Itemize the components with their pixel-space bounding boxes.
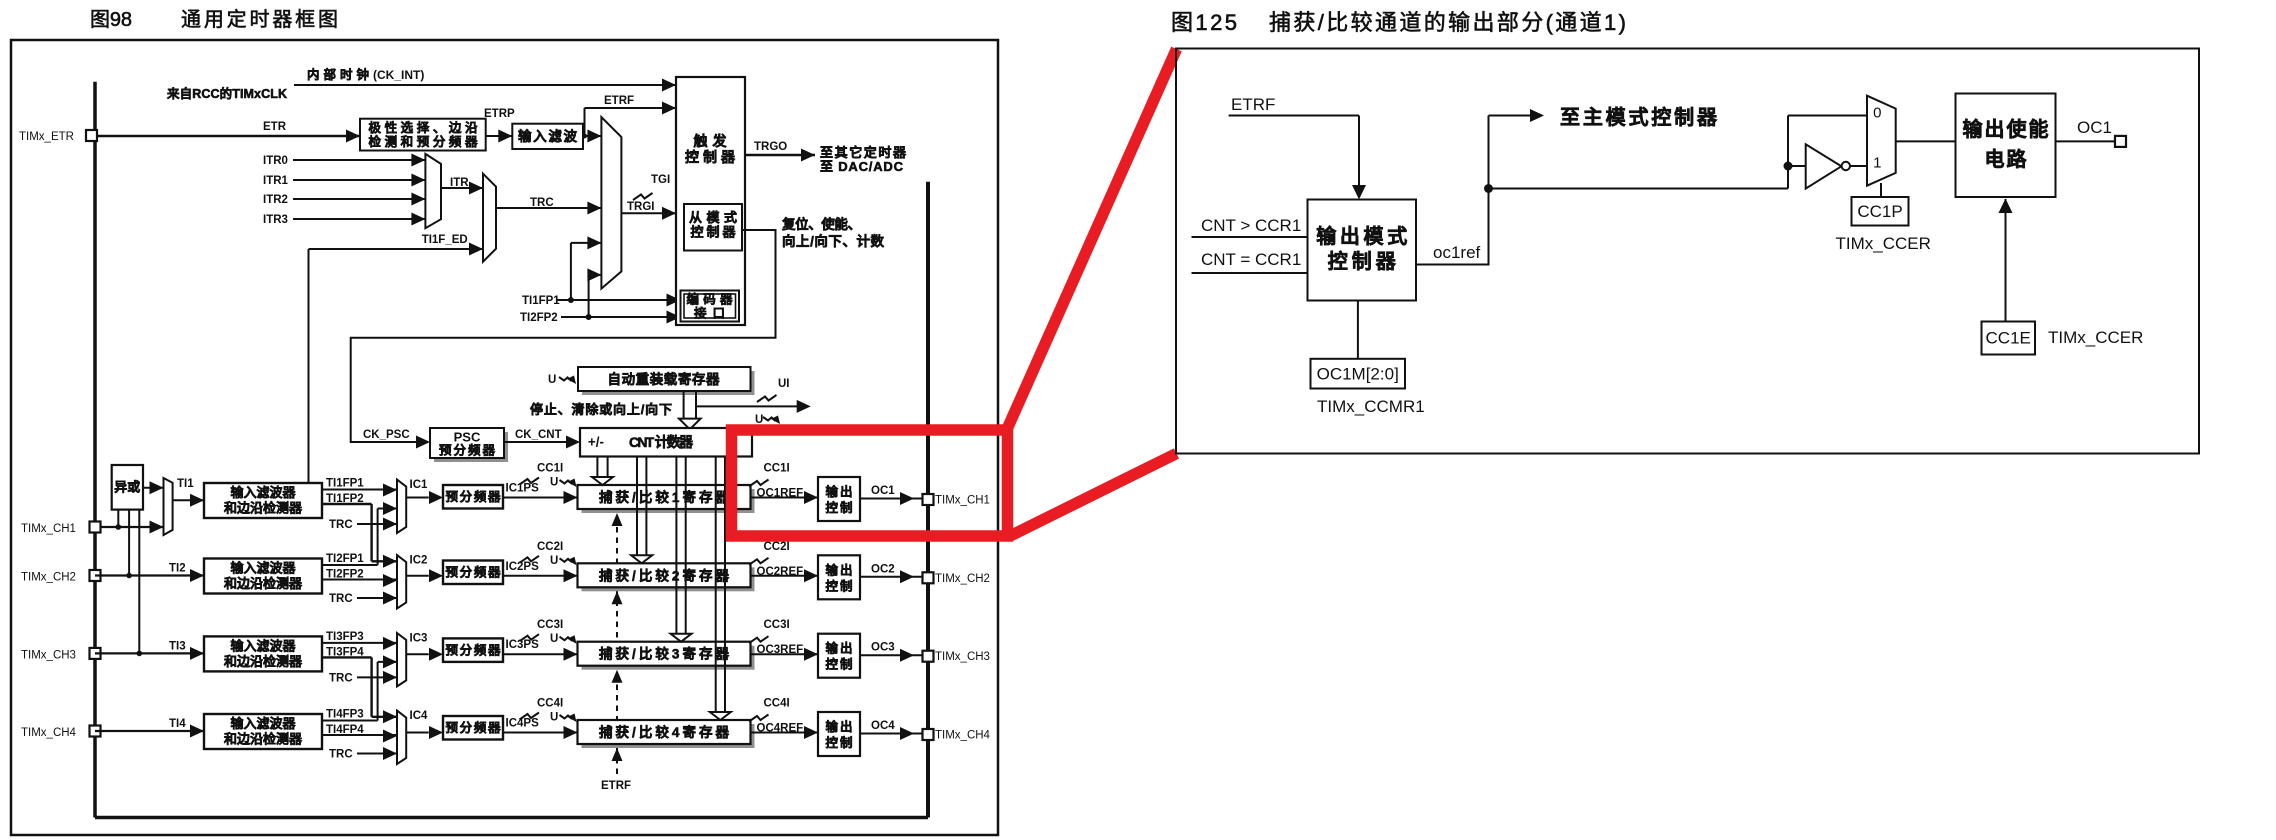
mux ITR select: [425, 154, 441, 228]
channel 2 input stage: [90, 570, 101, 581]
junction ETRF: [582, 134, 587, 139]
svg-text:捕获/比较通道的输出部分(通道1): 捕获/比较通道的输出部分(通道1): [1269, 10, 1626, 35]
box output enable circuit: [1956, 94, 2056, 198]
pad TIMx_CH1 right: [923, 494, 934, 505]
arrow ETRF into register 2: [612, 591, 623, 604]
svg-text:TIMx_CCER: TIMx_CCER: [2048, 328, 2143, 347]
svg-text:自动重装载寄存器: 自动重装载寄存器: [608, 371, 721, 387]
svg-text:和边沿检测器: 和边沿检测器: [224, 501, 303, 516]
inverter (NOT gate): [1806, 144, 1842, 188]
svg-text:TIMx_CH3: TIMx_CH3: [21, 649, 76, 661]
wire ETR: [96, 135, 360, 138]
svg-text:CNT > CCR1: CNT > CCR1: [1201, 216, 1301, 235]
svg-text:TIMx_CCER: TIMx_CCER: [1836, 234, 1931, 253]
svg-text:TI2FP1: TI2FP1: [326, 553, 364, 565]
svg-text:和边沿检测器: 和边沿检测器: [224, 654, 303, 669]
svg-text:TRC: TRC: [329, 593, 353, 605]
svg-text:和边沿检测器: 和边沿检测器: [224, 732, 303, 747]
wire TRGO: [745, 154, 815, 157]
box output mode controller: [1308, 200, 1417, 301]
svg-text:输出: 输出: [826, 562, 853, 577]
box input filter ch3: [204, 636, 322, 671]
wire FPup: [322, 720, 378, 722]
svg-text:TIMx_CH2: TIMx_CH2: [21, 572, 76, 584]
box capture/compare 1 register: [582, 489, 755, 513]
svg-text:预分频器: 预分频器: [446, 642, 501, 657]
wire TI1F_ED riser: [308, 249, 310, 483]
mux IC2 select: [397, 555, 406, 608]
pad OC1: [2115, 136, 2126, 147]
svg-text:TIMx_CCMR1: TIMx_CCMR1: [1317, 397, 1425, 416]
svg-text:控制: 控制: [826, 657, 853, 672]
wire XOR in1: [117, 510, 119, 527]
svg-text:U: U: [550, 712, 558, 724]
pad TIMx_CH1: [90, 522, 101, 533]
wire mux select: [1880, 183, 1882, 197]
svg-text:CC3I: CC3I: [537, 619, 563, 631]
box prescaler ch1: [443, 485, 503, 509]
svg-text:预分频器: 预分频器: [446, 565, 501, 580]
CNT bus pair to register 1: [596, 457, 598, 479]
box output control ch2: [818, 555, 860, 599]
svg-text:TRC: TRC: [329, 749, 353, 761]
svg-text:ETRP: ETRP: [484, 108, 515, 120]
box prescaler ch4: [443, 716, 503, 740]
box OC1M[2:0]: [1311, 359, 1406, 389]
svg-text:和边沿检测器: 和边沿检测器: [224, 576, 303, 591]
svg-text:输入滤波器: 输入滤波器: [231, 716, 297, 731]
hollow arrow autoreload to CNT: [683, 391, 685, 420]
svg-text:CC4I: CC4I: [537, 698, 563, 710]
wire ETRF to trigger mux: [583, 135, 601, 137]
svg-text:U: U: [548, 374, 556, 386]
svg-text:至 DAC/ADC: 至 DAC/ADC: [820, 159, 904, 174]
svg-text:TIMx_CH4: TIMx_CH4: [21, 727, 77, 739]
svg-text:IC2PS: IC2PS: [506, 561, 540, 573]
svg-text:TIMx_CH1: TIMx_CH1: [21, 523, 76, 535]
mux CC1P polarity select: [1867, 96, 1896, 186]
svg-text:ITR2: ITR2: [263, 194, 288, 206]
svg-text:(CK_INT): (CK_INT): [373, 68, 424, 82]
box prescaler ch3: [443, 638, 503, 662]
box XOR: [112, 465, 143, 510]
channel 1 output stage: [751, 497, 819, 499]
box capture/compare 4 register: [582, 724, 755, 748]
box CC1E: [1982, 322, 2036, 355]
svg-text:TI4FP3: TI4FP3: [326, 709, 364, 721]
interrupt CC1I right: [749, 480, 769, 487]
wire ITR: [441, 187, 483, 189]
wire CC1E enable: [2005, 199, 2007, 322]
channel 3 input stage: [90, 648, 101, 659]
svg-text:TI3: TI3: [169, 640, 186, 652]
svg-text:CK_CNT: CK_CNT: [515, 429, 562, 441]
wire mux input 0: [1788, 115, 1867, 117]
box output control ch1: [818, 477, 860, 521]
wire ETRP: [486, 135, 513, 137]
wire FPup: [322, 564, 378, 566]
box capture/compare 3 register: [582, 646, 755, 670]
svg-text:TIMx_CH3: TIMx_CH3: [935, 651, 990, 663]
box polarity/edge detector & prescaler: [360, 119, 486, 151]
svg-text:IC4: IC4: [410, 710, 429, 722]
svg-text:输入滤波器: 输入滤波器: [231, 485, 297, 500]
svg-text:输出: 输出: [826, 719, 853, 734]
svg-text:控制: 控制: [826, 578, 853, 593]
svg-text:通用定时器框图: 通用定时器框图: [181, 8, 338, 31]
arrow ETRF into register 4: [612, 748, 623, 761]
wire riser to mux0: [1787, 116, 1789, 189]
wire TRGI: [621, 212, 676, 214]
pad TIMx_ETR: [86, 130, 97, 141]
wire CK_INT: [294, 84, 676, 86]
pad TIMx_CH2 right: [923, 572, 934, 583]
junction TI2FP2: [586, 314, 592, 320]
channel 4 output stage: [751, 732, 819, 734]
box trigger controller: [676, 77, 745, 325]
box input filter ch4: [204, 714, 322, 749]
svg-text:异或: 异或: [114, 480, 140, 495]
svg-text:TIMx_ETR: TIMx_ETR: [19, 131, 74, 143]
wire IC1PS: [503, 497, 578, 499]
svg-text:CC4I: CC4I: [764, 698, 790, 710]
svg-text:OC1REF: OC1REF: [757, 488, 804, 500]
svg-text:CK_PSC: CK_PSC: [363, 429, 410, 441]
svg-text:OC4REF: OC4REF: [757, 723, 804, 735]
svg-text:CC2I: CC2I: [764, 541, 790, 553]
red callout line bottom: [1010, 454, 1177, 537]
junction inverter input: [1784, 162, 1793, 171]
svg-text:CC3I: CC3I: [764, 619, 790, 631]
svg-text:捕获/比较1寄存器: 捕获/比较1寄存器: [599, 489, 730, 505]
dashed ETRF clear line: [616, 512, 618, 774]
box PSC prescaler: [434, 432, 508, 462]
wire TIMx_CH1: [95, 526, 164, 528]
wire IC3PS: [503, 653, 578, 655]
wire XOR in3: [138, 510, 140, 654]
svg-text:ETR: ETR: [263, 121, 287, 133]
svg-text:OC3REF: OC3REF: [757, 644, 804, 656]
svg-text:oc1ref: oc1ref: [1433, 243, 1481, 262]
svg-text:CNT = CCR1: CNT = CCR1: [1201, 250, 1301, 269]
svg-text:ITR1: ITR1: [263, 175, 289, 187]
svg-text:向上/向下、计数: 向上/向下、计数: [782, 233, 885, 249]
interrupt CC3I right: [749, 636, 769, 643]
mux IC1 select: [397, 480, 406, 533]
svg-text:ETRF: ETRF: [601, 780, 631, 792]
interrupt CC3I left: [520, 634, 540, 641]
svg-text:ETRF: ETRF: [604, 95, 634, 107]
red callout line top: [1008, 49, 1177, 427]
svg-text:预分频器: 预分频器: [439, 443, 495, 458]
svg-text:UI: UI: [778, 378, 790, 390]
svg-text:CNT 计数器: CNT 计数器: [629, 434, 694, 450]
svg-text:TI1FP1: TI1FP1: [522, 295, 560, 307]
svg-text:预分频器: 预分频器: [446, 720, 501, 735]
mux TRC select: [483, 174, 496, 262]
svg-text:ITR3: ITR3: [263, 214, 288, 226]
box auto-reload register: [582, 371, 755, 395]
svg-text:TI1: TI1: [177, 478, 194, 490]
svg-text:图98: 图98: [90, 9, 132, 31]
svg-text:TRGI: TRGI: [627, 201, 654, 213]
pad TIMx_CH3 right: [923, 651, 934, 662]
wire OC1 out: [2056, 140, 2116, 142]
wire FPdown: [322, 656, 372, 658]
wire TI1FP1 riser: [570, 243, 572, 300]
svg-text:TRC: TRC: [329, 519, 353, 531]
svg-text:捕获/比较3寄存器: 捕获/比较3寄存器: [599, 646, 730, 662]
svg-text:IC3PS: IC3PS: [506, 639, 540, 651]
svg-text:TIMx_CH4: TIMx_CH4: [935, 730, 991, 742]
CNT bus pair to register 4: [715, 457, 717, 714]
svg-text:OC2REF: OC2REF: [757, 566, 804, 578]
box CC1P: [1852, 197, 1909, 226]
box slave mode controller: [684, 204, 742, 251]
interrupt UI: [757, 395, 777, 402]
svg-text:控制: 控制: [826, 500, 853, 515]
svg-text:TI3FP3: TI3FP3: [326, 631, 364, 643]
bottom internal bus: [95, 816, 928, 820]
svg-text:OC4: OC4: [871, 720, 895, 732]
interrupt CC1I left: [520, 478, 540, 485]
svg-text:U: U: [755, 414, 763, 426]
wire XOR out: [143, 487, 164, 489]
svg-text:输入滤波器: 输入滤波器: [231, 638, 297, 653]
svg-text:IC4PS: IC4PS: [506, 718, 540, 730]
svg-text:U: U: [550, 555, 558, 567]
svg-text:从模式: 从模式: [689, 210, 737, 225]
interrupt CC2I left: [520, 556, 540, 563]
CNT bus pair to register 3: [675, 457, 677, 635]
svg-text:捕获/比较4寄存器: 捕获/比较4寄存器: [599, 724, 730, 740]
red highlight rectangle: [732, 430, 1008, 536]
svg-text:TI1F_ED: TI1F_ED: [422, 234, 468, 246]
wire OC1M select: [1357, 301, 1359, 359]
svg-text:输出: 输出: [826, 641, 853, 656]
junction TI1FP1: [568, 297, 574, 303]
wire ETRF to trigger ctrl: [585, 107, 677, 109]
svg-text:控制器: 控制器: [685, 149, 736, 165]
wire TRC to trigger mux: [496, 207, 601, 209]
svg-text:CC2I: CC2I: [537, 541, 563, 553]
svg-text:OC1M[2:0]: OC1M[2:0]: [1317, 365, 1399, 384]
svg-text:停止、清除或向上/向下: 停止、清除或向上/向下: [530, 402, 672, 417]
wire TI1F_ED: [309, 248, 484, 250]
left internal bus: [93, 82, 97, 818]
svg-text:控制器: 控制器: [1328, 249, 1397, 273]
wire to inverter: [1788, 165, 1806, 167]
box prescaler ch2: [443, 561, 503, 585]
svg-text:CC1E: CC1E: [1986, 329, 2031, 348]
svg-text:TRGO: TRGO: [754, 141, 787, 153]
wire ITR2: [293, 198, 425, 200]
svg-text:输出: 输出: [826, 484, 853, 499]
mux trigger input: [601, 117, 621, 289]
svg-text:U: U: [550, 633, 558, 645]
channel 3 output stage: [751, 653, 819, 655]
channel 4 input stage: [90, 726, 101, 737]
wire CNT>CCR1: [1192, 236, 1308, 238]
left figure outer border: [11, 40, 998, 835]
svg-text:TIMx_CH2: TIMx_CH2: [935, 573, 990, 585]
wire FPdown: [322, 503, 372, 505]
svg-text:OC1: OC1: [2077, 118, 2112, 137]
svg-text:图125: 图125: [1171, 10, 1237, 35]
svg-text:来自RCC的TIMxCLK: 来自RCC的TIMxCLK: [166, 86, 287, 101]
svg-text:IC1PS: IC1PS: [506, 483, 540, 495]
svg-text:IC1: IC1: [410, 479, 429, 491]
svg-text:控制器: 控制器: [691, 225, 737, 240]
svg-text:OC2: OC2: [871, 563, 895, 575]
svg-text:OC3: OC3: [871, 642, 895, 654]
wire ITR1: [293, 179, 425, 181]
svg-text:预分频器: 预分频器: [446, 489, 501, 504]
svg-text:复位、使能、: 复位、使能、: [781, 216, 861, 232]
svg-text:编码器: 编码器: [687, 292, 733, 307]
wire TI1 to filter: [173, 499, 204, 501]
CNT bus pair to register 2: [636, 457, 638, 557]
box capture/compare 2 register: [582, 567, 755, 591]
interrupt CC2I right: [749, 558, 769, 565]
svg-text:TRC: TRC: [329, 672, 353, 684]
svg-text:TI1FP1: TI1FP1: [326, 478, 364, 490]
arrow ETRF into register 3: [612, 670, 623, 683]
arrow ETRF into register 1: [612, 513, 623, 526]
wire update event: [696, 405, 798, 407]
svg-text:ETRF: ETRF: [1231, 95, 1275, 114]
mux IC4 select: [397, 711, 406, 764]
wire ETRF riser: [584, 108, 586, 136]
wire to master mode ctrl: [1489, 115, 1535, 117]
mux TI1 select: [164, 478, 173, 535]
wire ETRF right: [1229, 115, 1359, 117]
svg-text:IC3: IC3: [410, 632, 428, 644]
wire IC4PS: [503, 732, 578, 734]
svg-text:IC2: IC2: [410, 555, 428, 567]
svg-text:+/-: +/-: [588, 435, 604, 450]
svg-text:捕获/比较2寄存器: 捕获/比较2寄存器: [599, 567, 730, 583]
svg-text:U: U: [550, 477, 558, 489]
junction oc1ref: [1484, 184, 1493, 193]
right figure outer border: [1176, 49, 2199, 454]
box input filter ch2: [204, 559, 322, 594]
wire IC2PS: [503, 575, 578, 577]
box output control ch3: [818, 634, 860, 678]
wire ITR0: [293, 159, 425, 161]
box input filter ch1: [204, 483, 322, 518]
wire TI1FP1 to encoder: [557, 299, 681, 301]
svg-text:输入滤波器: 输入滤波器: [231, 561, 297, 576]
svg-text:PSC: PSC: [454, 430, 481, 445]
box input filter: [512, 124, 583, 149]
interrupt CC4I right: [749, 715, 769, 722]
svg-text:CC1I: CC1I: [764, 463, 790, 475]
svg-text:CC1I: CC1I: [537, 463, 563, 475]
pad TIMx_CH4 right: [923, 729, 934, 740]
box encoder interface: [681, 291, 740, 322]
svg-text:控制: 控制: [826, 735, 853, 750]
svg-text:ITR0: ITR0: [263, 155, 288, 167]
svg-text:OC1: OC1: [871, 485, 895, 497]
svg-text:输入滤波: 输入滤波: [518, 128, 578, 144]
wire XOR in2: [128, 510, 130, 576]
right internal bus: [926, 182, 930, 818]
svg-text:TI2: TI2: [169, 563, 186, 575]
interrupt TGI: [633, 193, 653, 200]
wire TI2FP2 to encoder: [561, 316, 681, 318]
wire inverter to mux input 1: [1850, 165, 1867, 167]
svg-text:CC1P: CC1P: [1857, 202, 1902, 221]
box CNT counter: [580, 428, 752, 457]
svg-text:TI4: TI4: [169, 718, 186, 730]
wire oc1ref long: [1489, 188, 1789, 190]
svg-text:电路: 电路: [1985, 147, 2028, 171]
wire CK_CNT: [504, 441, 578, 443]
box output control ch4: [818, 712, 860, 756]
svg-text:TGI: TGI: [651, 174, 670, 186]
wire CNT=CCR1: [1192, 272, 1308, 274]
svg-text:0: 0: [1873, 105, 1881, 122]
wire mux out: [1896, 140, 1956, 142]
wire TI2FP2 riser: [588, 275, 590, 317]
wire ITR3: [293, 218, 425, 220]
svg-text:TI2FP2: TI2FP2: [520, 312, 558, 324]
wire oc1ref: [1416, 116, 1489, 265]
svg-text:1: 1: [1873, 155, 1881, 172]
channel 2 output stage: [751, 575, 819, 577]
mux IC3 select: [397, 633, 406, 686]
interrupt CC4I left: [520, 713, 540, 720]
svg-text:TIMx_CH1: TIMx_CH1: [935, 495, 990, 507]
wire slave mode ctrl to prescaler clock path: [351, 230, 776, 442]
